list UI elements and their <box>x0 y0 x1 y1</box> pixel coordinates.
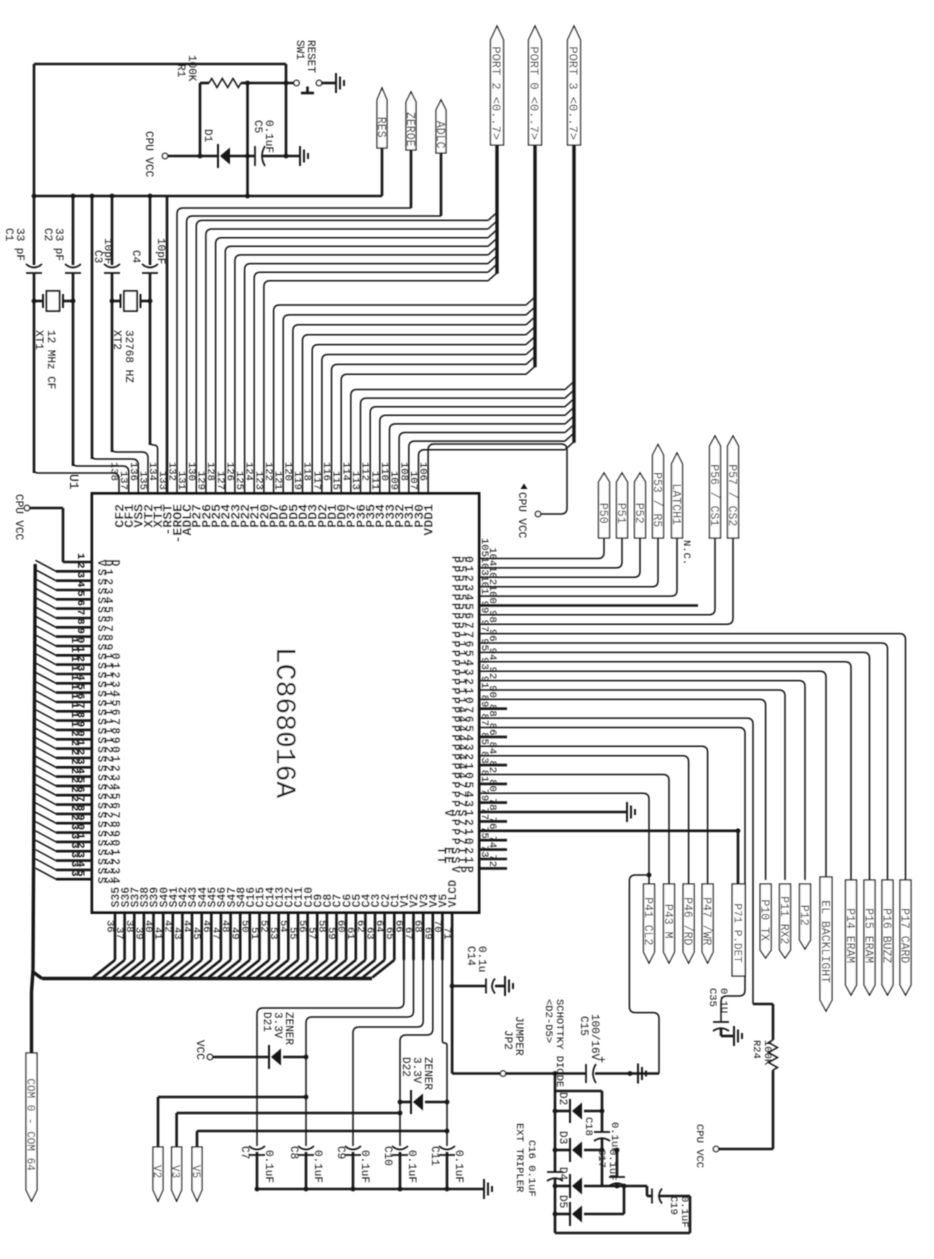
svg-text:P73: P73 <box>448 800 475 807</box>
svg-text:P51: P51 <box>448 565 475 572</box>
svg-text:XT1: XT1 <box>32 330 44 350</box>
svg-text:S14: S14 <box>94 690 121 697</box>
svg-text:P16: P16 <box>448 641 475 648</box>
svg-text:S2: S2 <box>94 578 114 585</box>
svg-text:P56: P56 <box>448 612 475 619</box>
svg-text:S33: S33 <box>94 867 121 874</box>
svg-text:C11: C11 <box>428 1146 440 1166</box>
svg-text:P71: P71 <box>448 828 475 835</box>
svg-text:P52: P52 <box>448 575 475 582</box>
svg-text:S3: S3 <box>94 588 114 595</box>
svg-text:D1: D1 <box>201 129 213 143</box>
svg-text:0.1uF: 0.1uF <box>311 1150 323 1183</box>
svg-text:<D2-D5>: <D2-D5> <box>542 999 554 1043</box>
svg-text:C8: C8 <box>287 1146 299 1159</box>
svg-text:PORT 3 <0..7>: PORT 3 <0..7> <box>566 46 580 140</box>
svg-text:P46: P46 <box>448 716 475 723</box>
svg-text:TEST1: TEST1 <box>434 857 475 864</box>
svg-text:S31: S31 <box>94 849 121 856</box>
svg-text:C7: C7 <box>238 1146 250 1159</box>
svg-text:U1: U1 <box>66 474 81 490</box>
svg-text:0.1uF: 0.1uF <box>606 1149 618 1181</box>
svg-text:ZEROE: ZEROE <box>403 112 416 147</box>
svg-text:C4: C4 <box>129 250 141 264</box>
svg-text:V3: V3 <box>169 1165 181 1178</box>
svg-text:C19: C19 <box>667 1196 679 1215</box>
svg-text:P12: P12 <box>448 678 475 685</box>
svg-text:7: 7 <box>74 609 86 615</box>
svg-text:P53: P53 <box>448 584 475 591</box>
svg-text:P71 P.DET: P71 P.DET <box>731 903 743 963</box>
svg-text:33: 33 <box>68 852 86 858</box>
svg-text:P11 RX2: P11 RX2 <box>777 896 790 944</box>
svg-text:C17: C17 <box>595 1149 607 1168</box>
svg-text:P47 /WR: P47 /WR <box>700 897 713 945</box>
svg-text:S34: S34 <box>94 877 121 884</box>
svg-text:PORT 0 <0..7>: PORT 0 <0..7> <box>527 46 541 140</box>
svg-text:C15: C15 <box>577 1016 589 1036</box>
svg-text:P54: P54 <box>448 594 475 601</box>
svg-text:VSS1: VSS1 <box>441 810 475 817</box>
svg-text:S25: S25 <box>94 793 121 800</box>
svg-text:3: 3 <box>74 572 86 578</box>
svg-text:S6: S6 <box>94 616 114 623</box>
svg-text:P16 BUZZ: P16 BUZZ <box>879 908 892 963</box>
svg-text:20: 20 <box>68 730 86 736</box>
svg-text:P42: P42 <box>448 753 475 760</box>
svg-text:+: + <box>594 1056 608 1063</box>
svg-text:23: 23 <box>68 758 86 764</box>
svg-text:S20: S20 <box>94 746 121 753</box>
svg-text:P13: P13 <box>448 669 475 676</box>
svg-text:100K: 100K <box>761 1040 773 1066</box>
svg-text:P72: P72 <box>448 819 475 826</box>
svg-text:P17 CARD: P17 CARD <box>897 908 910 963</box>
svg-text:S24: S24 <box>94 783 121 790</box>
svg-text:R24: R24 <box>750 1040 762 1059</box>
svg-text:P57: P57 <box>448 622 475 629</box>
svg-text:P51: P51 <box>614 503 627 524</box>
svg-text:LATCH1: LATCH1 <box>669 484 682 526</box>
svg-text:P11: P11 <box>448 688 475 695</box>
svg-text:P50: P50 <box>596 503 609 524</box>
svg-text:RES: RES <box>374 117 387 138</box>
svg-text:ADLC: ADLC <box>433 121 446 149</box>
svg-text:C18: C18 <box>582 1117 594 1136</box>
svg-text:S12: S12 <box>94 672 121 679</box>
svg-text:30: 30 <box>68 824 86 830</box>
svg-text:TEST2: TEST2 <box>434 847 475 854</box>
svg-text:S8: S8 <box>94 634 114 641</box>
svg-text:V2: V2 <box>150 1165 162 1178</box>
svg-text:P44: P44 <box>448 734 475 741</box>
svg-text:S30: S30 <box>94 839 121 846</box>
svg-text:12 MHz CF: 12 MHz CF <box>44 330 56 389</box>
svg-text:P43 M: P43 M <box>661 904 674 939</box>
svg-text:JP2: JP2 <box>501 1030 513 1050</box>
svg-text:N.C.: N.C. <box>680 540 692 565</box>
svg-text:C16 0.1uF: C16 0.1uF <box>525 1140 537 1197</box>
svg-text:P50: P50 <box>448 556 475 563</box>
svg-text:S27: S27 <box>94 811 121 818</box>
svg-text:C5: C5 <box>251 120 263 133</box>
svg-text:CPU VCC: CPU VCC <box>693 1124 705 1168</box>
svg-text:P41 CL2: P41 CL2 <box>641 897 654 945</box>
svg-text:10: 10 <box>68 637 86 643</box>
svg-text:0.1U: 0.1U <box>717 988 729 1013</box>
svg-text:ZENER: ZENER <box>421 1057 433 1090</box>
svg-text:P41: P41 <box>448 763 475 770</box>
svg-text:D22: D22 <box>399 1057 411 1077</box>
svg-text:PORT 2 <0..7>: PORT 2 <0..7> <box>489 46 503 140</box>
svg-text:EL BACKLIGHT: EL BACKLIGHT <box>818 900 831 983</box>
svg-text:S13: S13 <box>94 681 121 688</box>
svg-text:VLCD: VLCD <box>447 880 460 908</box>
svg-text:72: 72 <box>486 854 498 867</box>
svg-text:P57 / CS2: P57 / CS2 <box>725 464 738 526</box>
svg-text:P74: P74 <box>448 791 475 798</box>
svg-text:S26: S26 <box>94 802 121 809</box>
svg-text:27: 27 <box>68 796 86 802</box>
svg-text:S17: S17 <box>94 718 121 725</box>
svg-text:VCC: VCC <box>193 1040 205 1060</box>
svg-text:P15 ERAM: P15 ERAM <box>861 908 874 963</box>
svg-text:C9: C9 <box>334 1146 346 1159</box>
svg-text:S4: S4 <box>94 597 114 604</box>
svg-text:S19: S19 <box>94 737 121 744</box>
svg-text:S1: S1 <box>94 569 114 576</box>
svg-text:P12: P12 <box>797 905 810 926</box>
svg-text:1: 1 <box>74 553 86 559</box>
svg-text:S11: S11 <box>94 662 121 669</box>
svg-text:S28: S28 <box>94 821 121 828</box>
svg-text:JUMPER: JUMPER <box>512 1016 524 1056</box>
svg-text:S10: S10 <box>94 653 121 660</box>
svg-text:ZENER: ZENER <box>282 1012 294 1045</box>
svg-text:C2: C2 <box>41 228 53 241</box>
svg-text:S7: S7 <box>94 625 114 632</box>
svg-text:P14 ERAM: P14 ERAM <box>843 908 856 963</box>
svg-text:0.1uF: 0.1uF <box>405 1150 417 1183</box>
svg-text:D21: D21 <box>260 1012 272 1032</box>
svg-text:33 pF: 33 pF <box>52 228 64 261</box>
svg-text:S9: S9 <box>94 644 114 651</box>
svg-text:P70: P70 <box>448 838 475 845</box>
svg-text:P17: P17 <box>448 631 475 638</box>
svg-text:S32: S32 <box>94 858 121 865</box>
svg-text:P15: P15 <box>448 650 475 657</box>
svg-text:S5: S5 <box>94 606 114 613</box>
svg-text:P40: P40 <box>448 772 475 779</box>
svg-text:COM 0 - COM 64: COM 0 - COM 64 <box>24 1078 36 1171</box>
svg-text:100K: 100K <box>185 55 197 82</box>
svg-text:0.1uF: 0.1uF <box>358 1150 370 1183</box>
svg-text:0.1u: 0.1u <box>475 946 487 972</box>
svg-text:D3: D3 <box>556 1131 568 1144</box>
svg-text:16: 16 <box>68 693 86 699</box>
svg-text:D2: D2 <box>556 1092 568 1105</box>
svg-text:32768 HZ: 32768 HZ <box>122 330 134 383</box>
svg-text:P56 / CS1: P56 / CS1 <box>707 464 720 526</box>
svg-text:C35: C35 <box>706 988 718 1007</box>
svg-text:P47: P47 <box>448 706 475 713</box>
svg-text:S29: S29 <box>94 830 121 837</box>
svg-text:C14: C14 <box>464 946 476 966</box>
svg-text:VDD: VDD <box>94 560 121 567</box>
svg-text:10pF: 10pF <box>154 238 166 264</box>
svg-text:3.3V: 3.3V <box>271 1012 283 1039</box>
svg-text:S23: S23 <box>94 774 121 781</box>
svg-text:S22: S22 <box>94 765 121 772</box>
svg-text:0.1uF: 0.1uF <box>452 1150 464 1183</box>
svg-text:CPU VCC: CPU VCC <box>142 131 154 178</box>
svg-text:LC868016A: LC868016A <box>268 647 299 798</box>
svg-text:P75: P75 <box>448 781 475 788</box>
svg-text:CPU VCC: CPU VCC <box>12 494 24 541</box>
svg-text:0.1uF: 0.1uF <box>262 1150 274 1183</box>
svg-text:P10: P10 <box>448 697 475 704</box>
svg-text:C10: C10 <box>381 1146 393 1166</box>
svg-text:RESET: RESET <box>304 40 316 73</box>
svg-text:EXT TRIPLER: EXT TRIPLER <box>513 1123 525 1193</box>
svg-text:S18: S18 <box>94 727 121 734</box>
svg-text:S15: S15 <box>94 700 121 707</box>
svg-text:P43: P43 <box>448 744 475 751</box>
svg-text:P52: P52 <box>632 503 645 524</box>
svg-text:0.1uF: 0.1uF <box>262 120 274 153</box>
svg-text:0.1uF: 0.1uF <box>678 1196 690 1228</box>
svg-text:D4: D4 <box>556 1167 568 1181</box>
svg-text:S16: S16 <box>94 709 121 716</box>
svg-text:33 pF: 33 pF <box>13 228 25 261</box>
svg-text:10pF: 10pF <box>101 238 113 264</box>
svg-text:13: 13 <box>68 665 86 671</box>
svg-text:V5: V5 <box>189 1165 201 1178</box>
svg-text:D5: D5 <box>556 1195 568 1208</box>
svg-text:VPP: VPP <box>448 866 475 873</box>
svg-text:P14: P14 <box>448 659 475 666</box>
svg-text:VDD1: VDD1 <box>422 504 437 536</box>
svg-text:P46 /RD: P46 /RD <box>681 897 694 945</box>
svg-text:P55: P55 <box>448 603 475 610</box>
svg-text:R1: R1 <box>174 64 186 78</box>
svg-text:3.3V: 3.3V <box>410 1057 422 1084</box>
svg-text:100/16V: 100/16V <box>588 1014 600 1061</box>
svg-text:P45: P45 <box>448 725 475 732</box>
svg-text:SW1: SW1 <box>293 40 305 60</box>
svg-text:CPU VCC: CPU VCC <box>515 492 527 539</box>
svg-text:P10 TX: P10 TX <box>758 900 771 942</box>
svg-text:P53 / R5: P53 / R5 <box>650 472 663 527</box>
svg-text:C1: C1 <box>2 228 14 242</box>
svg-text:XT2: XT2 <box>110 330 122 350</box>
svg-text:S21: S21 <box>94 755 121 762</box>
